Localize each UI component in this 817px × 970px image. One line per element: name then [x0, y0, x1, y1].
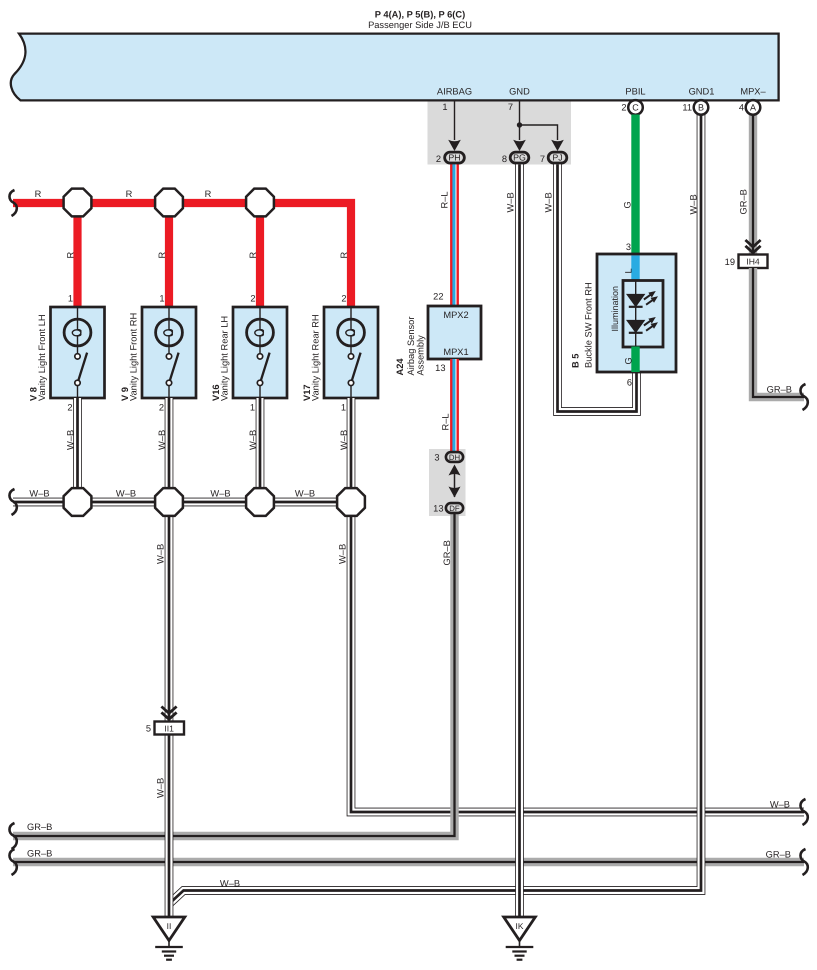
connector shade J/B: [428, 100, 572, 165]
wire GR-B IH4 to right edge: [753, 268, 804, 397]
svg-text:Buckle SW Front RH: Buckle SW Front RH: [584, 282, 594, 368]
svg-text:B 5: B 5: [571, 354, 581, 368]
continuation GR-B IH4 right: [800, 384, 807, 410]
wire R drop V16: [256, 207, 264, 307]
LED 2: [627, 315, 660, 334]
svg-text:2: 2: [67, 403, 72, 413]
arrow out of DH: [449, 465, 461, 476]
svg-text:G: G: [623, 201, 633, 208]
svg-text:GND1: GND1: [689, 87, 715, 97]
svg-text:PBIL: PBIL: [625, 87, 645, 97]
lamp V 8: [51, 307, 105, 398]
wire W-B junction bus: [13, 498, 351, 507]
svg-text:5: 5: [146, 723, 151, 733]
svg-text:W–B: W–B: [295, 489, 315, 499]
svg-text:Vanity Light Rear LH: Vanity Light Rear LH: [220, 316, 230, 401]
continuation R left: [9, 190, 16, 216]
svg-text:C: C: [632, 103, 639, 113]
svg-text:3: 3: [434, 453, 439, 463]
wire W-B to ground II upper: [165, 516, 174, 722]
wire R-L PH to MPX2: [450, 164, 459, 306]
svg-text:1: 1: [68, 294, 73, 304]
connector shade DH-DF: [429, 449, 466, 516]
LED 1: [627, 289, 660, 308]
connector IH4: [739, 255, 768, 269]
wire GR-B from DF to left edge: [13, 513, 455, 836]
svg-text:A: A: [750, 103, 756, 113]
svg-text:1: 1: [250, 403, 255, 413]
svg-text:R: R: [157, 252, 167, 259]
svg-text:L: L: [624, 268, 634, 273]
svg-text:1: 1: [442, 102, 447, 112]
svg-text:W–B: W–B: [156, 778, 166, 798]
svg-text:W–B: W–B: [338, 544, 348, 564]
svg-text:W–B: W–B: [157, 430, 167, 450]
connector pin C: [628, 100, 643, 115]
wire W-B PG to ground IK: [515, 164, 524, 917]
junction R 1: [64, 189, 92, 217]
wire G inside B5 lower: [631, 347, 639, 373]
svg-text:W–B: W–B: [29, 489, 49, 499]
svg-text:AIRBAG: AIRBAG: [437, 87, 472, 97]
lamp V17: [324, 307, 378, 398]
junction W-B 1: [64, 488, 92, 516]
svg-text:6: 6: [627, 378, 632, 388]
wire W-B from junction J4 to right edge: [351, 516, 804, 812]
svg-text:W–B: W–B: [506, 192, 516, 212]
svg-text:W–B: W–B: [66, 430, 76, 450]
svg-text:Passenger Side J/B ECU: Passenger Side J/B ECU: [368, 20, 472, 30]
illumination inner box: [623, 281, 663, 348]
svg-text:GR–B: GR–B: [442, 540, 452, 565]
svg-text:11: 11: [682, 103, 692, 113]
svg-text:W–B: W–B: [156, 544, 166, 564]
svg-text:R: R: [248, 252, 258, 259]
svg-text:PJ: PJ: [552, 153, 562, 163]
wire GR-B full width: [13, 858, 804, 866]
ground II: [153, 917, 185, 960]
svg-text:MPX2: MPX2: [443, 310, 468, 320]
svg-text:II1: II1: [164, 723, 174, 733]
svg-text:4: 4: [739, 103, 744, 113]
svg-text:G: G: [624, 357, 634, 364]
junction W-B 4: [337, 488, 365, 516]
svg-text:W–B: W–B: [248, 430, 258, 450]
junction dot GND branch: [517, 122, 522, 127]
svg-text:P 4(A), P 5(B), P 6(C): P 4(A), P 5(B), P 6(C): [375, 10, 465, 20]
connector pin A: [746, 100, 761, 115]
svg-text:MPX1: MPX1: [443, 347, 468, 357]
svg-text:W–B: W–B: [339, 430, 349, 450]
connector PJ: [548, 152, 567, 163]
wire G PBIL to B5: [631, 115, 639, 256]
connector PH: [445, 152, 465, 163]
svg-text:R: R: [66, 252, 76, 259]
svg-text:13: 13: [433, 504, 443, 514]
svg-text:W–B: W–B: [544, 192, 554, 212]
svg-text:IK: IK: [516, 921, 524, 931]
arrow into PJ: [551, 140, 564, 151]
arrow into PH: [448, 140, 461, 151]
svg-text:W–B: W–B: [116, 489, 136, 499]
svg-text:GND: GND: [509, 87, 530, 97]
svg-text:Vanity Light Front LH: Vanity Light Front LH: [37, 314, 47, 401]
junction W-B 2: [155, 488, 183, 516]
svg-text:1: 1: [159, 294, 164, 304]
wire GR-B MPX- upper: [749, 115, 757, 256]
svg-text:2: 2: [621, 103, 626, 113]
svg-text:GR–B: GR–B: [767, 385, 792, 395]
svg-text:19: 19: [725, 257, 735, 267]
svg-text:R–L: R–L: [440, 191, 450, 208]
svg-text:2: 2: [159, 403, 164, 413]
svg-text:3: 3: [626, 242, 631, 252]
wire R bus and drop to V17: [13, 203, 351, 307]
buckle switch B5 box: [597, 254, 676, 372]
arrow into PG: [513, 140, 526, 151]
svg-text:GR–B: GR–B: [739, 189, 749, 214]
svg-text:7: 7: [508, 102, 513, 112]
svg-text:A24: A24: [395, 358, 405, 376]
ground IK: [504, 917, 536, 960]
connector II1: [155, 722, 185, 735]
connector DH: [446, 452, 463, 462]
connector PG: [510, 152, 529, 163]
svg-text:Vanity Light Front RH: Vanity Light Front RH: [129, 313, 139, 401]
ECU block Passenger Side J/B: [11, 34, 779, 101]
connector arrows IH4: [745, 240, 760, 253]
wire W-B below V17: [347, 398, 356, 502]
continuation GR-B right: [800, 849, 807, 875]
svg-text:22: 22: [433, 292, 443, 302]
connector pin B: [694, 100, 709, 115]
svg-text:IH4: IH4: [746, 257, 760, 267]
wire W-B below V8: [73, 398, 82, 502]
wire GND lead: [520, 100, 558, 140]
svg-text:DH: DH: [449, 453, 460, 462]
svg-text:8: 8: [502, 154, 507, 164]
airbag sensor MPX box: [428, 306, 481, 359]
svg-text:PH: PH: [448, 153, 460, 163]
wire W-B to ground II lower: [165, 734, 174, 917]
junction W-B 3: [246, 488, 274, 516]
svg-text:1: 1: [341, 403, 346, 413]
wire R drop V9: [165, 207, 173, 307]
svg-text:MPX–: MPX–: [740, 87, 766, 97]
junction R 2: [155, 189, 183, 217]
svg-text:II: II: [167, 921, 172, 931]
svg-text:R: R: [126, 189, 133, 199]
continuation GR-B left 1: [9, 823, 16, 849]
svg-text:R: R: [339, 252, 349, 259]
svg-text:W–B: W–B: [220, 879, 240, 889]
svg-text:DF: DF: [449, 504, 460, 513]
continuation W-B left: [9, 489, 16, 515]
wire R-L MPX1 to DH: [450, 359, 459, 452]
connector DF: [446, 503, 463, 513]
continuation W-B right: [800, 799, 807, 825]
svg-text:Airbag Sensor: Airbag Sensor: [406, 317, 416, 376]
svg-text:R: R: [35, 189, 42, 199]
svg-text:7: 7: [540, 154, 545, 164]
svg-text:2: 2: [341, 294, 346, 304]
svg-text:R: R: [205, 189, 212, 199]
wire W-B GND1 to ground II line: [170, 115, 702, 904]
wire R drop V8: [73, 207, 81, 307]
svg-text:R–L: R–L: [441, 413, 451, 430]
svg-text:Vanity Light Rear RH: Vanity Light Rear RH: [311, 314, 321, 401]
svg-text:W–B: W–B: [689, 194, 699, 214]
wire W-B below V9: [165, 398, 174, 502]
wire AIRBAG lead: [454, 100, 456, 140]
svg-text:Assembly: Assembly: [416, 335, 426, 376]
svg-text:GR–B: GR–B: [766, 850, 791, 860]
svg-text:W–B: W–B: [210, 489, 230, 499]
svg-text:PG: PG: [513, 153, 526, 163]
svg-text:GR–B: GR–B: [27, 849, 52, 859]
wire W-B below V16: [256, 398, 265, 502]
lamp V16: [233, 307, 287, 398]
svg-text:2: 2: [250, 294, 255, 304]
svg-text:2: 2: [436, 154, 441, 164]
wire DH to DF link: [454, 470, 456, 497]
svg-text:Illumination: Illumination: [610, 286, 620, 332]
svg-text:13: 13: [435, 363, 445, 373]
wire LED link: [635, 281, 637, 348]
lamp V 9: [142, 307, 196, 398]
svg-text:W–B: W–B: [770, 800, 790, 810]
connector arrows II1: [161, 707, 176, 720]
svg-text:GR–B: GR–B: [27, 822, 52, 832]
svg-text:B: B: [698, 103, 704, 113]
junction R 3: [246, 189, 274, 217]
wire W-B PJ to B5 pin6: [558, 164, 637, 411]
wire L inside B5: [631, 256, 639, 282]
continuation GR-B left 2: [9, 849, 16, 875]
arrow into DF: [449, 487, 461, 498]
